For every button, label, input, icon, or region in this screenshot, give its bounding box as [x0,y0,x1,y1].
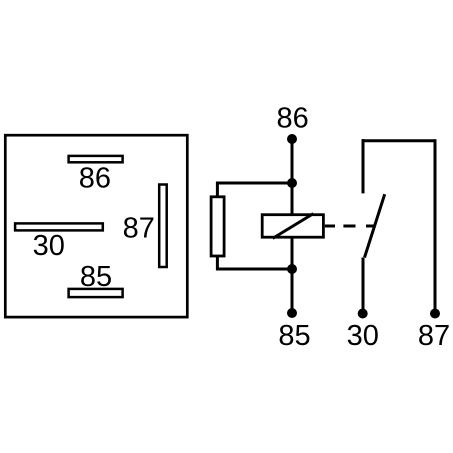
svg-text:30: 30 [347,320,379,352]
svg-text:86: 86 [79,162,111,194]
svg-text:85: 85 [278,320,310,352]
svg-text:87: 87 [418,320,450,352]
svg-text:87: 87 [123,213,155,245]
svg-text:86: 86 [276,103,308,135]
svg-text:30: 30 [33,230,65,262]
